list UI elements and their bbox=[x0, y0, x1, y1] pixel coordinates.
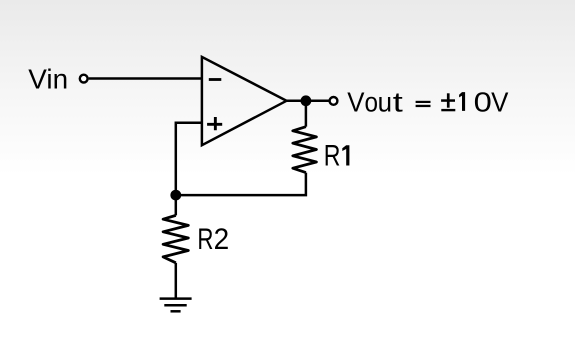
svg-text:2: 2 bbox=[214, 223, 230, 256]
svg-text:t: t bbox=[393, 86, 403, 117]
svg-text:Vin: Vin bbox=[28, 64, 68, 95]
svg-text:V: V bbox=[347, 87, 364, 118]
svg-text:u: u bbox=[378, 87, 392, 118]
svg-text:R: R bbox=[324, 139, 341, 172]
svg-text:V: V bbox=[491, 87, 508, 118]
svg-text:0: 0 bbox=[474, 88, 492, 118]
svg-text:R: R bbox=[197, 222, 213, 256]
svg-text:o: o bbox=[365, 86, 379, 118]
